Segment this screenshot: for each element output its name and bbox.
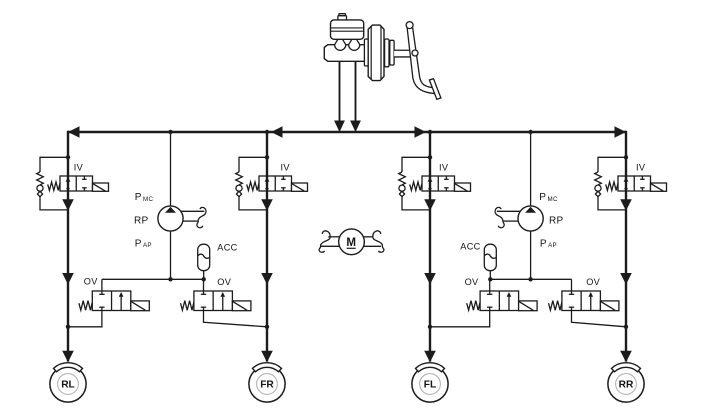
OV3 open-position flow path with arrow — [508, 295, 510, 310]
node: manifold junction left pump — [168, 277, 172, 281]
OV2 open-position flow path with arrow — [222, 295, 224, 310]
solenoid inlet valve IV4 body — [618, 176, 651, 191]
IV3 return spring — [410, 182, 422, 190]
wire: main pressure bus from master cylinder — [68, 131, 626, 133]
svg-text:AP: AP — [548, 242, 557, 249]
svg-text:OV: OV — [217, 277, 231, 287]
IV2 closed-position blocked ports — [282, 176, 284, 179]
reservoir cap — [338, 16, 347, 20]
svg-text:P: P — [135, 238, 142, 249]
OV4 solenoid actuator — [600, 301, 619, 311]
svg-text:RL: RL — [61, 380, 75, 391]
wheel brake cylinder RL — [50, 366, 86, 402]
arrow: into wheel FL — [424, 351, 436, 363]
wire: OV3 top port connection — [489, 279, 491, 291]
arrow: flow down below IV3 — [424, 199, 436, 211]
OV1 open-position flow path with arrow — [120, 295, 122, 310]
solenoid outlet valve OV3 body — [480, 291, 518, 311]
OV1 solenoid actuator — [131, 301, 150, 311]
wire: left unit manifold line — [102, 278, 204, 280]
wire: OV4 bottom return line — [572, 311, 627, 327]
arrow: into wheel RL — [62, 351, 74, 363]
drive coupling left of motor — [319, 231, 330, 252]
solenoid inlet valve IV2 body — [259, 176, 292, 191]
booster rear plate A — [385, 39, 389, 67]
pedal pivot — [406, 22, 413, 29]
arrow: bus flow toward branch 3 — [415, 126, 427, 137]
solenoid outlet valve OV4 body — [562, 291, 601, 311]
node: manifold junction right pump — [528, 277, 532, 281]
pedal pushrod — [394, 50, 415, 58]
node: manifold junction right accumulator — [488, 277, 492, 281]
reservoir port (secondary) — [349, 39, 360, 50]
solenoid outlet valve OV2 body — [194, 291, 233, 311]
wheel brake cylinder FL — [412, 366, 448, 402]
booster mounting plate — [364, 39, 368, 66]
wheel brake cylinder FR — [249, 366, 285, 402]
svg-text:P: P — [540, 238, 547, 249]
node: bypass top junction branch 2 — [265, 155, 269, 159]
arrow: bus flow right end — [615, 126, 627, 137]
spring of check valve CV2 — [236, 172, 243, 185]
IV3 solenoid actuator — [455, 183, 471, 191]
solenoid inlet valve IV3 body — [422, 176, 455, 191]
node: bus junction branch 3 — [428, 130, 432, 134]
spring of check valve CV3 — [399, 172, 406, 185]
svg-text:IV: IV — [281, 162, 291, 172]
wheel brake cylinder RR — [608, 366, 644, 402]
node: bus junction to left return pump — [168, 130, 172, 134]
solenoid inlet valve IV1 body — [60, 176, 93, 191]
IV1 open-position flow path — [67, 176, 69, 191]
check seat of CV3 — [399, 191, 404, 196]
wire: right return pump suction/delivery line — [530, 132, 532, 206]
svg-text:OV: OV — [586, 277, 600, 287]
OV2 closed-position blocked ports — [203, 291, 205, 294]
pushrod clevis pin — [412, 50, 418, 56]
svg-text:P: P — [539, 192, 546, 203]
spring of check valve CV4 — [595, 172, 602, 185]
node: bypass top junction branch 4 — [624, 155, 628, 159]
node: bypass top junction branch 1 — [66, 155, 70, 159]
OV4 closed-position blocked ports — [571, 291, 573, 294]
wire: branch 4 vertical line to wheel RR — [625, 131, 627, 362]
check valve bypass around IV4 — [598, 157, 626, 210]
brake pedal lever — [407, 26, 435, 94]
wire: OV2 bottom return line — [204, 311, 268, 327]
arrow: flow down secondary outlet — [350, 121, 361, 133]
node: bus junction branch 2 — [265, 130, 269, 134]
OV4 open-position flow path with arrow — [590, 295, 592, 310]
svg-text:MC: MC — [548, 196, 558, 203]
wire: branch 2 vertical line to wheel FR — [266, 131, 268, 362]
accumulator ACC (right) — [489, 270, 491, 279]
IV1 closed-position blocked ports — [83, 176, 85, 179]
node: bus junction to right return pump — [528, 130, 532, 134]
svg-text:FL: FL — [424, 380, 436, 391]
svg-text:IV: IV — [74, 162, 84, 172]
arrow: flow down branch 1 mid — [62, 273, 74, 285]
return pump RP (left) — [158, 206, 183, 231]
wire: motor shaft lines — [328, 236, 340, 238]
IV3 open-position flow path — [429, 176, 431, 191]
check seat of CV2 — [236, 191, 241, 196]
IV2 return spring — [247, 182, 259, 190]
wire: OV4 top port connection — [571, 279, 573, 291]
svg-text:M: M — [346, 236, 356, 249]
fluid reservoir — [331, 20, 364, 39]
svg-text:FR: FR — [260, 380, 274, 391]
arrow: flow down branch 4 mid — [620, 273, 632, 285]
svg-text:IV: IV — [439, 162, 449, 172]
arrow: flow down below IV4 — [620, 199, 632, 211]
check valve bypass around IV1 — [40, 157, 68, 210]
check ball of CV4 — [595, 185, 601, 191]
check valve bypass around IV2 — [239, 157, 267, 210]
spring of check valve CV1 — [37, 172, 44, 185]
pump motor M — [339, 229, 365, 255]
IV1 return spring — [48, 182, 60, 190]
arrow: bus flow left end — [68, 126, 80, 137]
wire: master cylinder secondary outlet line — [355, 61, 357, 131]
arrow: flow down below IV1 — [62, 199, 74, 211]
wire: OV1 bottom return line — [68, 311, 102, 327]
svg-text:MC: MC — [143, 196, 153, 203]
svg-text:RP: RP — [549, 216, 564, 227]
wire: right unit manifold line — [490, 278, 572, 280]
node: OV return junction branch 3 — [428, 325, 432, 329]
wire: OV3 bottom return line — [430, 311, 490, 327]
svg-text:RP: RP — [134, 216, 149, 227]
IV1 solenoid actuator — [93, 183, 109, 191]
OV1 closed-position blocked ports — [101, 291, 103, 294]
node: OV return junction branch 2 — [265, 325, 269, 329]
svg-text:RR: RR — [619, 380, 634, 391]
booster rear plate B — [390, 40, 394, 65]
IV4 return spring — [606, 182, 618, 190]
OV3 closed-position blocked ports — [489, 291, 491, 294]
vacuum booster — [368, 25, 384, 81]
check ball of CV2 — [236, 185, 242, 191]
accumulator ACC (left) — [203, 270, 205, 279]
node: OV return junction branch 4 — [624, 325, 628, 329]
arrow: flow down primary outlet — [334, 121, 345, 133]
svg-text:ACC: ACC — [460, 242, 480, 252]
node: bypass top junction branch 3 — [428, 155, 432, 159]
IV2 solenoid actuator — [292, 183, 308, 191]
reservoir port (primary) — [335, 39, 346, 50]
IV4 closed-position blocked ports — [641, 176, 643, 179]
return pump RP (right) — [518, 206, 543, 231]
svg-text:P: P — [135, 192, 142, 203]
check valve bypass around IV3 — [402, 157, 430, 210]
wire: branch 3 vertical line to wheel FL — [429, 131, 431, 362]
svg-text:AP: AP — [143, 242, 152, 249]
wire: left return pump suction/delivery line — [170, 132, 172, 206]
OV4 return spring — [548, 301, 561, 311]
arrow: into wheel RR — [620, 351, 632, 363]
arrow: flow down branch 3 mid — [424, 273, 436, 285]
arrow: flow down branch 2 mid — [261, 273, 273, 285]
master cylinder body — [324, 45, 366, 62]
IV4 solenoid actuator — [651, 183, 667, 191]
wire: branch 1 vertical line to wheel RL — [67, 131, 69, 362]
node: OV return junction branch 1 — [66, 325, 70, 329]
svg-text:OV: OV — [465, 277, 479, 287]
arrow: flow down below IV2 — [261, 199, 273, 211]
OV2 solenoid actuator — [232, 301, 251, 311]
arrow: into wheel FR — [261, 351, 273, 363]
check ball of CV1 — [37, 185, 43, 191]
drive coupling of left pump — [181, 210, 204, 212]
IV2 open-position flow path — [266, 176, 268, 191]
pedal pad — [429, 79, 441, 100]
svg-text:IV: IV — [636, 162, 646, 172]
svg-text:OV: OV — [84, 277, 98, 287]
solenoid outlet valve OV1 body — [92, 291, 131, 311]
OV2 return spring — [181, 301, 194, 311]
drive coupling right of motor — [373, 231, 384, 252]
drive coupling of right pump — [497, 210, 520, 212]
check seat of CV4 — [595, 191, 600, 196]
wire: OV1 top port connection — [101, 279, 103, 291]
svg-text:ACC: ACC — [217, 243, 237, 253]
check ball of CV3 — [399, 185, 405, 191]
check seat of CV1 — [37, 191, 42, 196]
wire: OV2 top port connection — [203, 279, 205, 291]
arrow: bus flow toward branch 2 — [271, 126, 283, 137]
wire: master cylinder primary outlet line — [339, 61, 341, 131]
IV3 closed-position blocked ports — [445, 176, 447, 179]
OV3 return spring — [467, 301, 480, 311]
IV4 open-position flow path — [625, 176, 627, 191]
OV1 return spring — [79, 301, 92, 311]
OV3 solenoid actuator — [519, 301, 538, 311]
node: manifold junction left accumulator — [202, 277, 206, 281]
